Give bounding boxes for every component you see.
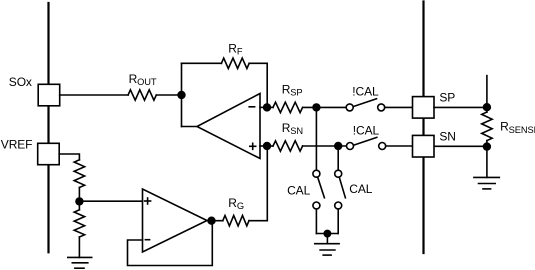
wire SN tap down to CAL switch xyxy=(337,146,339,170)
resistor R_OUT xyxy=(128,90,156,100)
node R_SENSE bottom xyxy=(484,143,491,150)
wire U2 output to R_G xyxy=(207,220,223,222)
svg-text:!CAL: !CAL xyxy=(353,124,380,138)
node VREF divider xyxy=(76,198,83,205)
wire R_G to U1 non-inverting input xyxy=(249,146,267,221)
wire SP to R_SENSE xyxy=(434,106,487,108)
ground (divider) xyxy=(68,256,92,258)
svg-text:!CAL: !CAL xyxy=(352,85,379,99)
node SP cal tap xyxy=(313,104,320,111)
wire R_SENSE top stub xyxy=(486,76,488,112)
resistor R_SP xyxy=(273,102,303,112)
wire SP tap down to CAL switch xyxy=(315,107,317,170)
wire R_OUT to node xyxy=(156,94,181,96)
svg-text:CAL: CAL xyxy=(349,182,372,196)
node U1 inverting input xyxy=(264,104,271,111)
wire switch to SP box xyxy=(385,106,413,108)
wire node vertical to R_F and op-amp output xyxy=(181,63,183,126)
svg-text:SOx: SOx xyxy=(9,75,32,89)
node A junction xyxy=(178,92,185,99)
resistor divider upper xyxy=(74,160,84,188)
svg-text:CAL: CAL xyxy=(287,183,310,197)
wire U1 inverting input stub xyxy=(260,106,273,108)
wire R_SP to switch xyxy=(303,106,347,108)
left bus (SOx/VREF net) xyxy=(47,3,49,252)
VREF box xyxy=(38,143,60,164)
right bus (SP/SN net) xyxy=(422,2,424,254)
switch !CAL (SP line) xyxy=(346,104,353,111)
SOx box xyxy=(38,84,60,106)
switch !CAL (SN line) xyxy=(347,143,354,150)
wire R_SN to switch xyxy=(303,145,347,147)
ground (CAL switches) xyxy=(315,243,339,245)
wire SN to R_SENSE xyxy=(435,145,487,147)
switch CAL (left) xyxy=(313,170,320,177)
svg-text:SN: SN xyxy=(439,130,455,144)
wire divider node to op-amp U2 xyxy=(79,200,142,202)
node R_SENSE top xyxy=(484,104,491,111)
resistor R_SENSE xyxy=(482,112,492,141)
node CAL ground junction xyxy=(324,230,330,236)
svg-text:SP: SP xyxy=(439,90,455,104)
wire switch to SN box xyxy=(386,145,413,147)
wire U1 non-inverting input stub xyxy=(260,145,273,147)
resistor R_G xyxy=(223,216,249,226)
node SN cal tap xyxy=(335,143,342,150)
svg-text:VREF: VREF xyxy=(1,137,33,151)
wire U2 feedback loop xyxy=(128,221,213,266)
SN box xyxy=(413,135,435,157)
ground (R_SENSE) xyxy=(474,176,499,178)
op-amp U1 (mirrored, output left) xyxy=(197,94,260,159)
wire R_SENSE to ground xyxy=(486,141,488,178)
resistor divider lower xyxy=(78,201,80,209)
wire joining CAL switches xyxy=(316,233,338,235)
resistor R_SN xyxy=(273,141,303,151)
resistor R_F feedback xyxy=(182,62,222,64)
node U1 non-inverting input xyxy=(264,143,271,150)
wire VREF to divider xyxy=(59,154,79,160)
wire op-amp U1 output xyxy=(182,126,198,128)
op-amp U2 (buffer) xyxy=(143,189,208,252)
node U2 output xyxy=(208,217,215,224)
switch CAL (right) xyxy=(335,170,342,177)
SP box xyxy=(413,97,435,119)
wire SOx to R_OUT xyxy=(60,94,128,96)
